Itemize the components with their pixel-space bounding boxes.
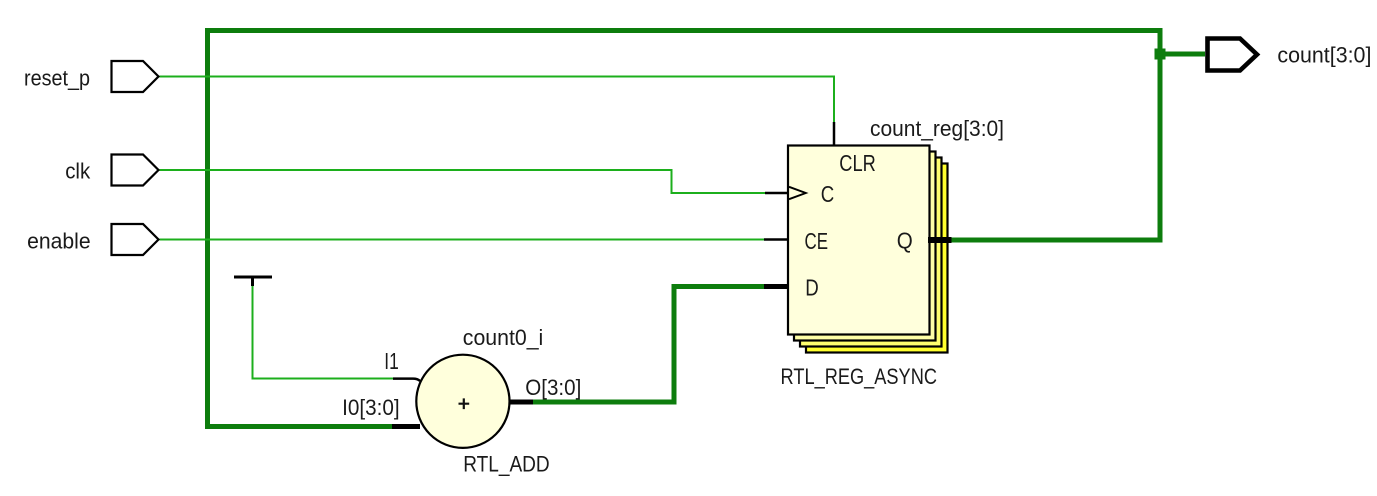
svg-text:O[3:0]: O[3:0]	[525, 375, 581, 400]
svg-text:count0_i: count0_i	[463, 325, 544, 350]
wire: constant ground net to I1	[253, 285, 394, 379]
pin stub Q (black bus)	[928, 237, 952, 243]
svg-text:count[3:0]: count[3:0]	[1277, 43, 1371, 68]
output port count[3:0]	[1208, 39, 1258, 71]
wire: bus net O (adder output to D)	[533, 287, 764, 403]
pin stub O (black bus)	[509, 400, 533, 405]
node junction on count net	[1155, 49, 1166, 60]
wire: bus net count (Q feedback loop)	[208, 31, 1161, 427]
svg-text:CLR: CLR	[839, 150, 876, 176]
svg-text:RTL_ADD: RTL_ADD	[463, 452, 550, 477]
pin stub I0 (black bus)	[392, 424, 420, 429]
svg-text:D: D	[805, 275, 819, 301]
svg-text:count_reg[3:0]: count_reg[3:0]	[870, 116, 1004, 141]
pin stub I1 (black)	[393, 379, 420, 381]
wire: enable net	[160, 239, 765, 241]
wire: bus branch to output port count[3:0]	[1158, 52, 1206, 57]
svg-text:reset_p: reset_p	[24, 66, 90, 91]
svg-text:C: C	[821, 181, 835, 207]
pin stub C (black)	[765, 192, 788, 195]
wire: reset_p net	[160, 77, 835, 123]
svg-text:Q: Q	[897, 227, 913, 253]
pin stub D (black bus)	[764, 284, 789, 289]
input port clk	[112, 155, 159, 186]
wire: clk net	[160, 170, 766, 193]
page 4 (back)	[806, 164, 948, 353]
svg-text:enable: enable	[27, 229, 91, 254]
adder count0_i : RTL_ADD	[416, 355, 509, 448]
svg-text:clk: clk	[65, 158, 91, 183]
page 2	[794, 152, 936, 341]
svg-text:CE: CE	[805, 228, 829, 254]
input port enable	[112, 224, 159, 255]
page 3	[800, 158, 942, 347]
pin stub CE (black)	[764, 238, 788, 241]
input port reset_p	[112, 61, 159, 92]
clock chevron on C pin	[789, 187, 806, 199]
ground constant symbol	[234, 277, 272, 286]
svg-text:I0[3:0]: I0[3:0]	[342, 395, 400, 420]
svg-text:I1: I1	[384, 348, 399, 374]
svg-text:RTL_REG_ASYNC: RTL_REG_ASYNC	[781, 364, 938, 389]
page 1 (front body)	[788, 146, 930, 335]
pin stub CLR (black)	[833, 122, 836, 145]
register count_reg[3:0] : RTL_REG_ASYNC	[788, 146, 948, 353]
plus sign	[459, 398, 470, 409]
